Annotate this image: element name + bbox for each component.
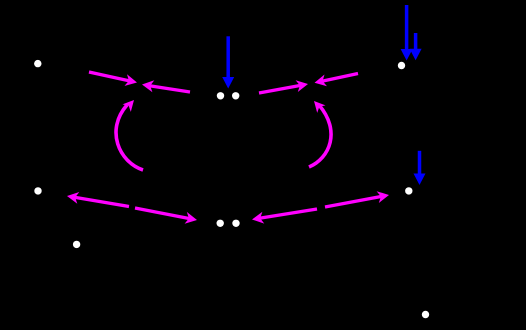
atom population dot center right	[232, 220, 239, 227]
atom population dot upper-center left	[217, 92, 224, 99]
atom population dot lower-left	[73, 241, 80, 248]
magenta arrow: pump sigma- into upper-left convergence	[89, 72, 137, 86]
blue arrow: short laser beam top-right	[410, 33, 422, 60]
magenta curved arrow: right spontaneous decay loop	[309, 101, 331, 167]
magenta arrow: lower-left pointing to left ground level	[67, 192, 129, 207]
blue arrow: laser beam top-center	[222, 36, 234, 88]
magenta arrow: lower-left pointing to center ground level	[135, 208, 197, 224]
magenta arrow: lower-right pointing to center ground level	[252, 209, 317, 224]
atom population dot upper-left	[34, 60, 41, 67]
blue arrow: long laser beam top-right	[401, 5, 413, 61]
magenta arrow: pump from center toward upper-right convergence	[259, 80, 308, 93]
atom population dot middle-left	[34, 187, 41, 194]
magenta curved arrow: left spontaneous decay loop	[116, 100, 143, 170]
atom population dot upper-right	[398, 62, 405, 69]
magenta arrow: pump sigma+ into upper-right convergence	[315, 74, 359, 87]
magenta arrow: lower-right pointing to right ground level	[325, 191, 389, 207]
atom population dot middle-right	[405, 187, 412, 194]
atom population dot center left	[217, 220, 224, 227]
magenta arrow: pump from center toward upper-left convergence	[142, 80, 190, 92]
atom population dot upper-center right	[232, 92, 239, 99]
atom population dot bottom-right	[422, 311, 429, 318]
blue arrow: laser beam right-middle	[414, 151, 426, 185]
